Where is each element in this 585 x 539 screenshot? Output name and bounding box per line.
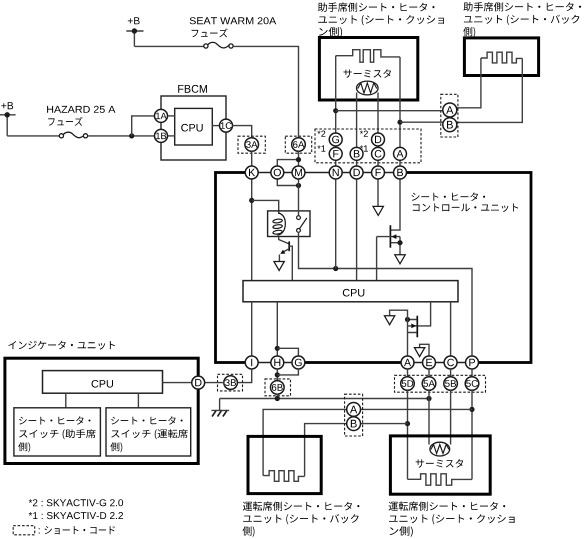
connector A (driver) <box>347 403 361 417</box>
pin N (control unit top) <box>329 166 342 179</box>
wire to connector A (passenger) <box>336 110 443 112</box>
connector F <box>329 147 342 160</box>
note short-cord legend <box>39 528 40 533</box>
wire D-C <box>377 146 379 147</box>
connector 5A <box>422 377 436 391</box>
wire B to D <box>356 160 358 166</box>
wire 5A to thermistor <box>428 390 430 444</box>
passenger seat-back heater unit box <box>464 38 538 76</box>
thermistor (driver cushion) <box>430 442 450 456</box>
pin D (control unit top) <box>350 166 363 179</box>
connector B (passenger) <box>443 118 457 132</box>
wire +B to fuse <box>134 45 203 47</box>
wire Q1 base to CPU <box>289 246 292 281</box>
label *1 left <box>317 145 325 151</box>
connector A <box>394 147 407 160</box>
wire 5D to driver cushion heater <box>407 390 409 479</box>
note *1 <box>29 512 123 519</box>
pin H (control unit bottom) <box>271 356 284 369</box>
wire E hook <box>420 344 429 356</box>
pin 1A <box>155 109 168 122</box>
connector B <box>350 147 363 160</box>
relay box <box>268 211 310 237</box>
short-cord box 6A <box>285 136 311 153</box>
wire CPU to Q3 gate <box>418 302 431 326</box>
pin I (control unit bottom) <box>245 356 258 369</box>
node 5C-A <box>469 407 474 412</box>
node H-G <box>275 346 280 351</box>
node 5D-B <box>405 421 410 426</box>
arrow to ground (Q2 source) <box>395 255 405 264</box>
wire G to H node <box>277 369 298 375</box>
wire N down <box>335 179 337 269</box>
wire E to 5A <box>428 369 430 377</box>
connector 3A <box>245 138 259 152</box>
pin G (control unit bottom) <box>292 356 305 369</box>
short-cord box 5D/5A/5B/5C <box>395 375 486 392</box>
wire 6A to M <box>298 151 300 166</box>
wire O jumper up <box>277 160 298 167</box>
wire to connector B (passenger) <box>400 121 443 123</box>
wire H down <box>276 369 278 381</box>
wire CPU to D <box>163 382 192 384</box>
connector C <box>372 147 385 160</box>
pin K (control unit top) <box>245 166 258 179</box>
label SEAT WARM 20A fuse <box>190 17 277 24</box>
wire relay switch to P <box>299 232 473 356</box>
wire P to 5C <box>471 369 473 377</box>
ground <box>212 399 230 417</box>
wire B to Q2 drain <box>391 179 400 230</box>
wire A to B <box>399 160 401 166</box>
wire back heater to A <box>457 58 481 108</box>
wire I to 3B <box>237 369 252 383</box>
connector 6B <box>271 381 285 395</box>
wire F down <box>377 179 379 207</box>
pin M (control unit top) <box>292 166 305 179</box>
node 6B ground <box>275 396 280 401</box>
wire heater to G <box>335 56 337 134</box>
driver seat-back heater unit box <box>248 436 321 493</box>
label thermistor (passenger) <box>344 69 392 78</box>
node Q3 drain <box>405 317 410 322</box>
wire G-F <box>335 146 337 147</box>
wire O jumper down <box>277 179 298 186</box>
label *2 right <box>360 131 368 137</box>
wire fuse to FBCM 1B <box>88 135 155 137</box>
wire C to F <box>377 160 379 166</box>
note *2 <box>29 499 123 506</box>
arrow to ground (Q3) <box>384 316 394 325</box>
short-cord box 3B <box>218 374 243 391</box>
driver seat-cushion heater unit box <box>390 436 490 494</box>
indicator unit box <box>5 358 198 463</box>
wire CPU to driver switch <box>137 393 139 408</box>
label HAZARD 25 A fuse <box>47 106 115 113</box>
label control unit line1 <box>412 192 486 201</box>
pin P (control unit bottom) <box>466 356 479 369</box>
wire CPU to passenger switch <box>65 393 67 408</box>
pin E (control unit bottom) <box>423 356 436 369</box>
wire M to relay switch <box>298 179 300 216</box>
wire B line to driver back heater <box>305 424 408 477</box>
label *1 right <box>360 145 368 151</box>
connector 5C <box>465 377 479 391</box>
wire thermistor to B <box>356 93 358 148</box>
wire CPU to 1C <box>212 125 219 127</box>
wire back heater to B <box>457 58 523 122</box>
wire Q3 to A <box>407 320 409 357</box>
wire branch to G <box>277 348 298 356</box>
label indicator unit <box>8 341 115 350</box>
arrow to ground (Q1 emitter) <box>274 262 284 271</box>
heater element (driver back) <box>263 471 305 482</box>
arrow to ground (F) <box>373 206 383 215</box>
connector B (driver) <box>347 417 361 431</box>
connector 5D <box>401 377 415 391</box>
pin B (control unit top) <box>394 166 407 179</box>
wire heater right to A <box>399 57 401 148</box>
wire +B to hazard fuse <box>7 135 59 137</box>
wire 3B to indicator D <box>205 382 224 384</box>
transistor Q1 (relay driver NPN) <box>279 237 290 262</box>
power +B (seat warm feed) <box>126 17 143 46</box>
connector A (passenger) <box>443 103 457 117</box>
short-cord box 6B <box>265 379 291 396</box>
CPU (FBCM) <box>175 108 213 145</box>
passenger seat-cushion heater unit box <box>319 38 417 101</box>
heater element (passenger back) <box>481 52 522 63</box>
node N-P <box>333 266 338 271</box>
pin D (indicator) <box>192 376 205 389</box>
fuse SEAT WARM 20A <box>204 42 233 48</box>
wire 1B to CPU <box>167 135 174 137</box>
wire CPU to H <box>276 302 278 356</box>
node cushion heater right <box>397 120 402 125</box>
CPU (control unit) <box>243 281 458 302</box>
transistor Q3 (driver heater MOSFET) <box>408 316 418 338</box>
FBCM unit box <box>161 96 226 160</box>
wire 5B to thermistor <box>450 390 452 444</box>
pin O (control unit top) <box>271 166 284 179</box>
wire CPU to I <box>251 302 253 356</box>
label driver cushion heater line1 <box>389 501 506 510</box>
node M internal <box>296 183 301 188</box>
wire 5C to driver cushion heater <box>471 390 473 479</box>
node cushion heater left <box>333 108 338 113</box>
short-cord box G/F/B/D/C/A <box>315 129 421 163</box>
wire C to 5B <box>450 369 452 377</box>
wire thermistor to D <box>377 93 379 134</box>
connector 6A <box>292 138 306 152</box>
wire CPU to C <box>450 302 452 356</box>
short-cord box A/B (passenger) <box>441 94 458 137</box>
label passenger heater cushion line1 <box>318 2 435 11</box>
wire 1A to CPU <box>167 115 174 117</box>
short-cord box 3A <box>238 136 265 153</box>
wire branch to FBCM 1A <box>132 116 155 136</box>
connector D <box>372 133 385 146</box>
ground bus wire <box>220 398 429 400</box>
wire Q2 gate to CPU <box>376 237 378 281</box>
thermistor (passenger cushion) <box>357 81 379 95</box>
label thermistor (driver) <box>416 459 464 468</box>
CPU (indicator unit) <box>43 371 163 394</box>
label driver back heater line1 <box>243 501 360 510</box>
node 6A-M <box>296 157 301 162</box>
wire Q3 to arrow <box>390 310 408 319</box>
connector 5B <box>444 377 458 391</box>
arrow to ground (E) <box>414 348 424 357</box>
connector 3B <box>224 376 238 390</box>
pin 1B <box>155 129 168 142</box>
transistor Q2 (passenger heater MOSFET) <box>377 225 400 254</box>
relay switch <box>297 216 307 233</box>
heater element (driver cushion) <box>408 474 473 485</box>
wire K to CPU <box>251 179 253 281</box>
node K branch <box>249 198 254 203</box>
power +B (hazard feed) <box>0 102 16 136</box>
fuse HAZARD 25A <box>59 132 87 138</box>
pin A (control unit bottom) <box>401 356 414 369</box>
connector G <box>329 133 342 146</box>
seat heater switch (driver) <box>106 408 191 456</box>
wire A line to driver back heater <box>263 409 472 475</box>
wire F to N <box>335 160 337 166</box>
seat heater switch (passenger) <box>14 408 101 456</box>
pin C (control unit bottom) <box>444 356 457 369</box>
label FBCM <box>178 85 207 93</box>
wire 6B to ground bus <box>276 394 278 399</box>
heater element (passenger cushion) <box>336 50 400 63</box>
wire A to 5D <box>407 369 409 377</box>
label *2 left <box>317 131 325 137</box>
node 5A ground <box>426 396 431 401</box>
node hazard branch <box>129 133 134 138</box>
wire K branch to relay coil <box>252 200 279 214</box>
pin 1C <box>220 119 233 132</box>
node H-G below <box>275 372 280 377</box>
wire 3A to K <box>251 151 253 166</box>
wire fuse to connector 6A <box>233 46 298 137</box>
wire D to CPU <box>356 179 358 281</box>
seat heater control unit box <box>216 173 532 363</box>
pin F (control unit top) <box>372 166 385 179</box>
wire 1C to short-cord 3A <box>233 126 252 138</box>
short-cord box A/B (driver) <box>345 394 363 436</box>
control unit edge thin segments <box>246 171 406 175</box>
relay coil <box>273 213 286 235</box>
legend short-cord box <box>13 526 35 535</box>
node Q2 source <box>397 240 402 245</box>
